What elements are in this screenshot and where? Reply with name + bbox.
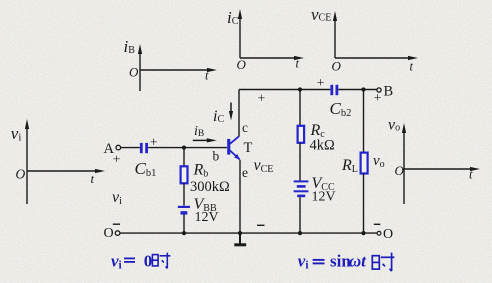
capacitor C_b1 <box>140 143 148 153</box>
graph i_B vertical axis <box>138 44 142 91</box>
junction node top of R_c <box>298 87 302 91</box>
wire R_c to V_CC <box>299 143 301 181</box>
character shi of caption 1 <box>152 253 170 269</box>
svg-text:12V: 12V <box>195 210 219 225</box>
graph i_C vertical axis <box>238 9 242 58</box>
wire R_L to bottom rail <box>363 174 365 234</box>
junction node bottom of V_CC <box>298 231 302 235</box>
svg-text:O: O <box>395 163 405 178</box>
wire emitter down to rail <box>239 160 241 233</box>
caption v_i = sin wt condition <box>298 252 367 272</box>
svg-text:O: O <box>129 65 139 80</box>
svg-text:+: + <box>317 75 325 90</box>
svg-text:c: c <box>242 120 248 135</box>
wire A to C_b1 <box>121 147 140 149</box>
transistor T base bar <box>227 139 230 155</box>
wire C_b1 to base node <box>148 147 227 149</box>
graph v_i horizontal axis <box>27 169 105 173</box>
svg-text:12V: 12V <box>312 190 336 205</box>
junction node at base branch <box>182 146 186 150</box>
resistor R_c <box>298 126 305 143</box>
caption v_i = 0 condition <box>111 251 152 271</box>
junction node bottom of V_BB <box>182 231 186 235</box>
capacitor C_b2 <box>330 85 338 95</box>
terminal B <box>377 88 381 92</box>
wire V_CC to bottom rail <box>299 197 301 233</box>
battery V_CC <box>294 181 309 196</box>
svg-text:t: t <box>205 69 209 83</box>
minus sign of v_CE <box>257 224 265 226</box>
graph i_C horizontal axis <box>240 56 304 60</box>
svg-text:O: O <box>383 227 393 242</box>
minus sign above O left <box>113 223 120 225</box>
terminal O right <box>377 231 381 235</box>
terminal A <box>116 145 121 150</box>
graph v_o vertical axis <box>402 123 406 204</box>
graph v_o horizontal axis <box>404 167 480 171</box>
junction node bottom of emitter <box>238 231 242 235</box>
battery V_BB <box>178 207 190 213</box>
svg-text:+: + <box>258 91 266 106</box>
wire base branch down to R_b <box>183 148 185 167</box>
svg-text:+: + <box>374 90 382 105</box>
svg-text:O: O <box>104 226 114 241</box>
top rail left segment <box>239 89 330 91</box>
junction node bottom of R_L <box>361 231 365 235</box>
svg-text:O: O <box>332 59 342 74</box>
svg-text:300kΩ: 300kΩ <box>190 179 230 195</box>
svg-text:O: O <box>237 57 247 72</box>
resistor R_b <box>181 166 188 183</box>
svg-text:t: t <box>469 168 473 182</box>
resistor R_L <box>361 153 368 174</box>
svg-text:e: e <box>242 165 248 180</box>
svg-text:t: t <box>296 57 300 71</box>
terminal O left <box>115 231 120 236</box>
transistor T collector lead <box>230 136 239 144</box>
graph i_B horizontal axis <box>140 68 217 72</box>
svg-text:4kΩ: 4kΩ <box>310 138 336 154</box>
svg-text:B: B <box>384 84 394 100</box>
svg-text:b: b <box>213 149 220 164</box>
top rail right segment <box>338 89 377 91</box>
minus sign above O right <box>374 223 381 225</box>
svg-text:O: O <box>16 167 26 182</box>
current arrow i_C <box>229 103 233 121</box>
graph v_i vertical axis <box>25 119 29 204</box>
svg-text:T: T <box>244 140 253 156</box>
bottom rail <box>120 232 377 234</box>
junction node top of R_L <box>361 87 365 91</box>
transistor T emitter lead with arrow <box>230 151 240 161</box>
graph v_CE horizontal axis <box>335 56 418 60</box>
character shi of caption 2 <box>372 253 394 272</box>
wire rail to R_L <box>363 90 365 153</box>
wire V_BB to bottom rail <box>183 215 185 233</box>
current arrow i_B <box>193 138 217 142</box>
ground <box>234 233 246 245</box>
wire rail to R_c <box>299 90 301 127</box>
svg-text:t: t <box>91 171 95 186</box>
wire collector up to rail <box>238 90 240 137</box>
wire R_b to V_BB <box>183 183 185 205</box>
svg-text:t: t <box>410 60 414 74</box>
svg-text:+: + <box>113 152 121 167</box>
graph v_CE vertical axis <box>333 11 337 58</box>
